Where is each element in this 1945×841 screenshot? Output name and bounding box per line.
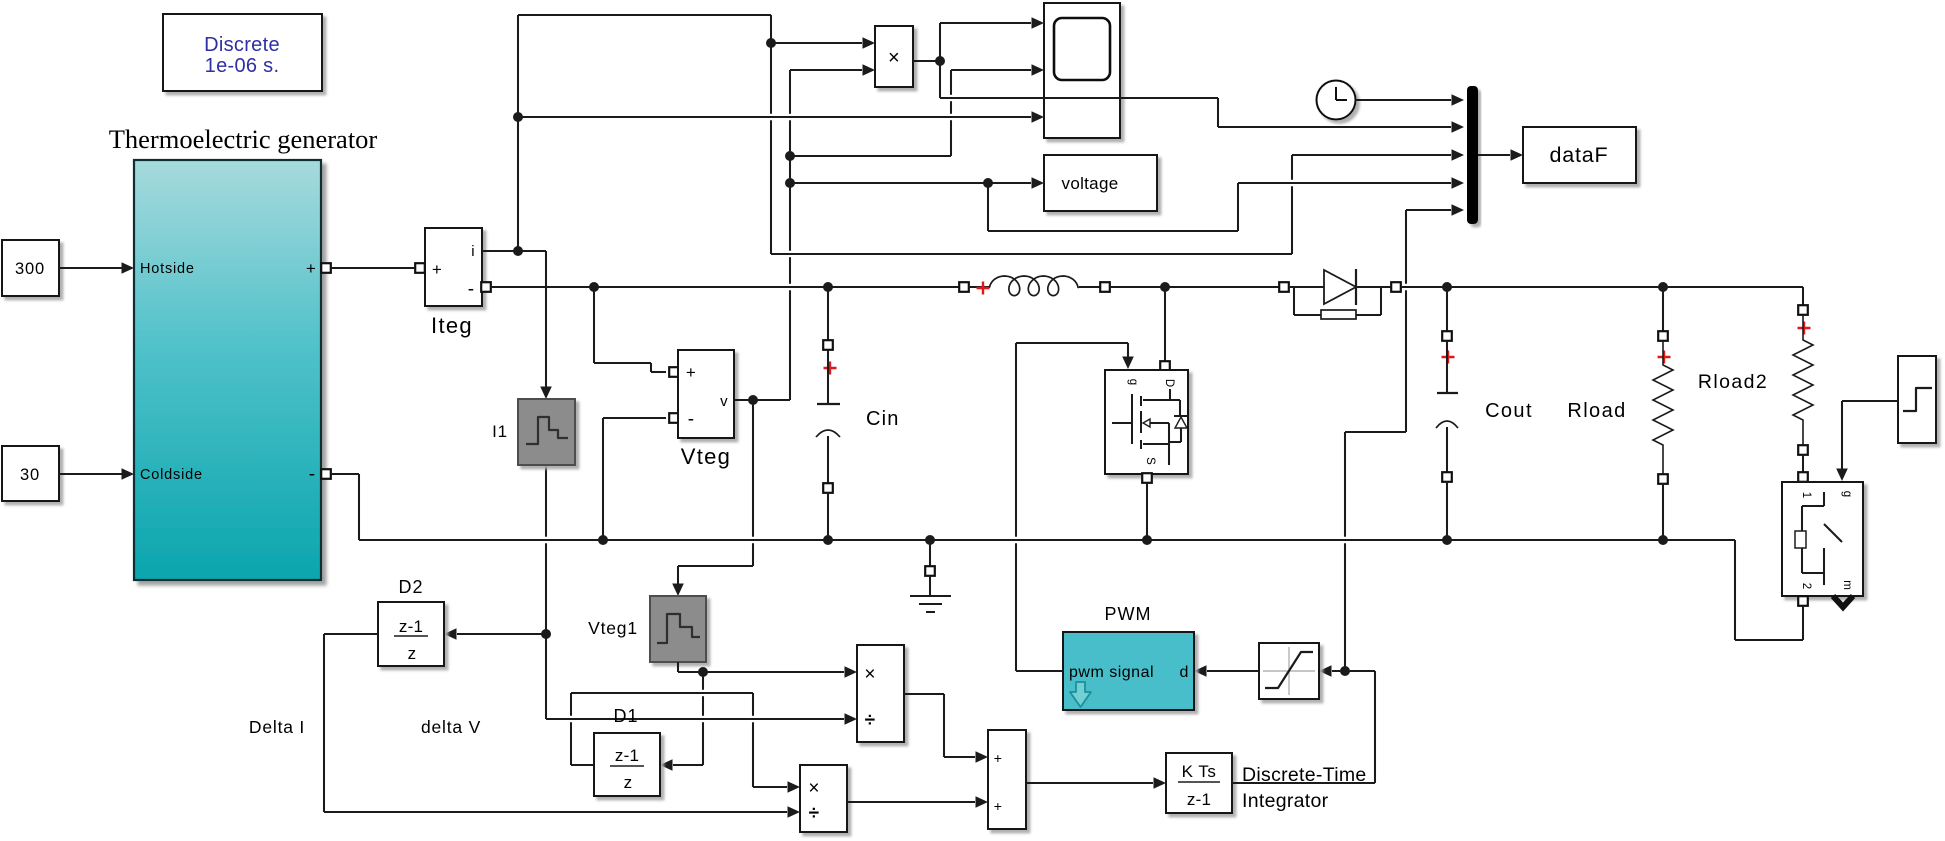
constant block 300 [2, 240, 59, 296]
svg-text:z: z [624, 773, 633, 792]
snubber resistor [1321, 310, 1356, 319]
port Cout - [1442, 472, 1452, 482]
node delta I tap [541, 629, 551, 639]
wire inductor to right port [1079, 286, 1100, 288]
resistor Rload zigzag [1653, 341, 1673, 474]
svg-text:z-1: z-1 [399, 617, 423, 636]
display block I1 [518, 399, 575, 465]
dataF block [1523, 127, 1636, 183]
svg-text:D: D [1163, 379, 1175, 387]
svg-text:g: g [1841, 491, 1853, 497]
svg-text:D2: D2 [398, 577, 423, 597]
node MOSFET source rail tap [1142, 535, 1152, 545]
svg-text:I1: I1 [492, 422, 508, 441]
port diode anode [1279, 282, 1289, 292]
port MOSFET drain [1160, 361, 1170, 371]
svg-text:-: - [468, 279, 475, 300]
wire Iteg i output to node [482, 250, 546, 252]
wire v to voltage display [790, 182, 1031, 184]
voltage goto block [1044, 155, 1157, 211]
thermoelectric generator block TEG [134, 160, 321, 580]
svg-text:delta V: delta V [421, 717, 481, 737]
clock block [1317, 81, 1356, 120]
node i junction [513, 246, 523, 256]
node Rload tap [1658, 282, 1668, 292]
wire Cout top connection [1446, 287, 1448, 331]
wire MOSFET source to ground rail [1146, 483, 1148, 540]
port inductor left [959, 282, 969, 292]
node Vteg1 out junction [698, 667, 708, 677]
wire v to product X input 2 [790, 69, 862, 71]
wire i down to product [770, 15, 772, 114]
ground symbol [929, 540, 931, 566]
display block Vteg1 [650, 596, 706, 662]
voltage measurement block Vteg [678, 350, 734, 438]
wire i to P1 divide input [546, 718, 844, 720]
svg-text:voltage: voltage [1062, 174, 1119, 193]
svg-text:Integrator: Integrator [1242, 790, 1329, 812]
wire product to scope node [913, 60, 940, 62]
svg-text:i: i [471, 243, 475, 260]
wire i to mux input 3 [1292, 154, 1451, 156]
svg-text:+: + [686, 363, 696, 382]
port Rload2 bottom [1798, 445, 1808, 455]
svg-text:Vteg1: Vteg1 [588, 618, 638, 638]
port Cin + [823, 340, 833, 350]
svg-text:v: v [720, 393, 728, 410]
wire Cin to ground rail [827, 492, 829, 540]
port Rload2 top [1798, 305, 1808, 315]
svg-text:+: + [306, 259, 316, 278]
wire step to breaker g [1842, 400, 1898, 402]
svg-text:1: 1 [1800, 492, 1812, 498]
svg-text:Discrete: Discrete [204, 34, 280, 56]
svg-text:pwm signal: pwm signal [1069, 664, 1154, 681]
wire Vteg v output [734, 399, 790, 401]
wire Iteg- to inductor [490, 286, 960, 288]
svg-text:+: + [994, 750, 1002, 766]
svg-text:÷: ÷ [865, 710, 876, 731]
node Cin top tap [823, 282, 833, 292]
node duty junction [1340, 666, 1350, 676]
wire i below I1 to D2 node [545, 465, 547, 537]
wire i to scope input 3 [518, 116, 1031, 118]
wire D2 output loop to P2 [324, 633, 378, 635]
node P junction [935, 56, 945, 66]
node MOSFET drain tap [1160, 282, 1170, 292]
wire mux to dataF [1478, 154, 1510, 156]
wire v up [789, 70, 791, 114]
diode snubber branch [1293, 287, 1295, 315]
wire Vteg- branch to ground rail [603, 417, 666, 419]
svg-text:×: × [888, 47, 900, 69]
wire duty to mux input 5 [1344, 432, 1346, 537]
svg-text:z-1: z-1 [615, 746, 639, 765]
svg-text:Delta I: Delta I [249, 717, 305, 737]
wire i down to I1 display [545, 251, 547, 394]
port Iteg + input [415, 263, 425, 273]
scope block [1044, 3, 1120, 138]
wire i up [517, 15, 519, 251]
port inductor right [1100, 282, 1110, 292]
current measurement block Iteg [425, 228, 482, 306]
svg-text:×: × [808, 778, 819, 799]
svg-text:-: - [309, 464, 316, 485]
node v to mux [983, 178, 993, 188]
product block P1 multiply divide [857, 645, 904, 742]
mux block [1467, 86, 1478, 224]
svg-text:Rload2: Rload2 [1698, 371, 1768, 393]
breaker block [1782, 482, 1863, 596]
diode triangle [1324, 270, 1356, 304]
node ground rail tap [925, 535, 935, 545]
wire TEG- down [331, 473, 359, 475]
wire diode anode lead [1289, 286, 1324, 288]
node v to voltage display [785, 178, 795, 188]
svg-text:+: + [432, 260, 442, 279]
svg-text:+: + [994, 798, 1002, 814]
wire P2 output to sum [847, 801, 975, 803]
wire breaker 2 to ground rail loop [1798, 596, 1808, 606]
wire clock to mux input 1 [1355, 99, 1451, 101]
node i to scope [513, 112, 523, 122]
wire sum to integrator [1026, 782, 1153, 784]
wire Vteg1 out to D1 [702, 672, 704, 690]
svg-text:Thermoelectric generator: Thermoelectric generator [109, 124, 378, 154]
saturation block [1259, 643, 1319, 699]
red plus Rload [1658, 351, 1671, 364]
svg-text:Cin: Cin [866, 408, 900, 430]
svg-text:PWM: PWM [1105, 604, 1152, 624]
port Cin - [823, 483, 833, 493]
wire Rload to ground rail [1662, 483, 1664, 540]
node Rload rail tap [1658, 535, 1668, 545]
wire 30 to Coldside [59, 473, 123, 475]
node v junction [748, 395, 758, 405]
port Rload top [1658, 331, 1668, 341]
wire 300 to Hotside [59, 267, 123, 269]
wire inductor to diode [1110, 286, 1279, 288]
MOSFET icon [1112, 422, 1132, 424]
wire integrator output loop [1232, 782, 1375, 784]
node Vteg- rail tap [598, 535, 608, 545]
svg-text:-: - [688, 409, 695, 430]
red plus inductor polarity [968, 286, 990, 288]
diode cathode bar [1355, 269, 1357, 305]
wire Rload top connection [1662, 287, 1664, 331]
wire i to product X input 1 [771, 42, 862, 44]
node Cout rail tap [1442, 535, 1452, 545]
svg-text:÷: ÷ [809, 803, 820, 824]
red plus Rload2 [1798, 322, 1811, 335]
scope screen bezel [1054, 18, 1110, 80]
svg-text:Cout: Cout [1485, 400, 1533, 422]
wire PWM output to MOSFET gate [1016, 670, 1063, 672]
wire i long horizontal to mux [771, 253, 1292, 255]
svg-text:D1: D1 [613, 706, 638, 726]
svg-text:dataF: dataF [1550, 143, 1609, 167]
product block X [875, 26, 913, 87]
constant block 30 [2, 446, 59, 501]
port Vteg - input [669, 413, 679, 423]
port MOSFET source [1142, 473, 1152, 483]
svg-text:2: 2 [1800, 583, 1812, 589]
MOSFET block [1105, 370, 1188, 474]
svg-text:300: 300 [15, 260, 45, 278]
wire v to scope input 2 [790, 155, 951, 157]
svg-text:d: d [1179, 664, 1188, 681]
port TEG + [321, 263, 331, 273]
capacitor Cin [827, 350, 829, 403]
product block P2 multiply divide [800, 765, 847, 832]
svg-text:Vteg: Vteg [681, 444, 731, 469]
capacitor Cout [1446, 341, 1448, 392]
wire Rload2 to breaker [1802, 454, 1804, 472]
wire P to scope input 1 [939, 23, 941, 61]
wire drain node to MOSFET [1164, 287, 1166, 362]
port TEG - [321, 469, 331, 479]
svg-text:g: g [1127, 379, 1139, 385]
port Vteg + input [669, 367, 679, 377]
discrete-time integrator block [1166, 753, 1232, 813]
node v to scope [785, 151, 795, 161]
port Rload bottom [1658, 474, 1668, 484]
wire Vteg+ branch [593, 287, 595, 363]
breaker icon [1823, 492, 1825, 506]
port breaker 1 [1798, 472, 1808, 482]
svg-text:Rload: Rload [1567, 400, 1626, 422]
wire to D2 input [457, 633, 546, 635]
port Iteg - output [481, 282, 491, 292]
svg-text:z-1: z-1 [1187, 790, 1211, 809]
svg-text:Iteg: Iteg [431, 313, 473, 338]
step icon [1903, 388, 1932, 411]
powergui block Discrete 1e-06 s. [163, 14, 322, 91]
svg-text:S: S [1144, 457, 1156, 465]
svg-text:×: × [864, 664, 875, 685]
wire saturation to PWM d [1207, 670, 1259, 672]
port diode cathode [1391, 282, 1401, 292]
wire diode to output node [1401, 286, 1803, 288]
wire Vteg1 output [677, 662, 679, 672]
wire Cout to ground rail [1446, 481, 1448, 540]
svg-text:1e-06 s.: 1e-06 s. [205, 55, 280, 77]
node i to product [766, 38, 776, 48]
wire P to mux input 2 [939, 61, 941, 98]
svg-text:Hotside: Hotside [140, 261, 195, 277]
svg-text:z: z [408, 644, 417, 663]
discrete derivative block D1 [594, 733, 660, 796]
red plus Cout [1442, 351, 1455, 364]
wire Cin top connection [827, 287, 829, 341]
wire v to mux input 4 [987, 183, 989, 231]
wire P1 output to sum [904, 693, 944, 695]
wire D1 output loop to P2 [571, 764, 594, 766]
node Vteg+ tap [589, 282, 599, 292]
svg-text:K Ts: K Ts [1182, 762, 1217, 781]
breaker m marker [1833, 596, 1853, 607]
ground rail [359, 539, 1735, 541]
wire i up to mux [1291, 155, 1293, 180]
PWM down arrow icon [1070, 682, 1091, 707]
red plus Cin [824, 362, 837, 375]
sum block [988, 730, 1026, 829]
node Cin rail tap [823, 535, 833, 545]
inductor L coil [990, 276, 1080, 296]
step block [1898, 356, 1936, 443]
resistor Rload2 zigzag [1793, 315, 1813, 445]
wire diode cathode lead [1356, 286, 1391, 288]
wire v down to Vteg1 [752, 400, 754, 537]
wire i top horizontal [518, 14, 771, 16]
PWM subsystem block [1063, 632, 1194, 710]
wire to Rload2 [1802, 287, 1804, 305]
node Cout tap [1442, 282, 1452, 292]
svg-text:Coldside: Coldside [140, 467, 203, 483]
wire TEG+ to Iteg+ [331, 267, 415, 269]
svg-text:m: m [1841, 580, 1853, 590]
port Cout + [1442, 331, 1452, 341]
svg-text:30: 30 [20, 466, 40, 484]
